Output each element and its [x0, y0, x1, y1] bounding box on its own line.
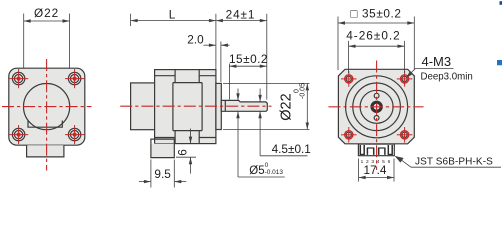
svg-text:6: 6: [176, 149, 190, 156]
connector pin bridges: [360, 148, 393, 154]
dimension Ø22 -0.05 rotated: [223, 83, 310, 130]
body section line right bottom: [198, 131, 200, 144]
svg-text:Ø22: Ø22: [34, 6, 59, 20]
svg-text:Ø5: Ø5: [249, 165, 264, 177]
screw bottom-left: [9, 125, 28, 144]
centerline vertical left view: [46, 59, 48, 171]
svg-text:15±0.2: 15±0.2: [229, 52, 268, 66]
svg-text:17.4: 17.4: [364, 163, 387, 177]
dimension 24±1: [216, 8, 267, 100]
svg-text:L: L: [169, 8, 176, 22]
shaft: [221, 100, 267, 111]
svg-text:9.5: 9.5: [154, 167, 171, 181]
connector side view: [151, 144, 174, 158]
body section line left bottom: [174, 131, 176, 144]
svg-text:24±1: 24±1: [226, 8, 256, 22]
centerline horizontal right view: [329, 106, 424, 108]
connector notch chord: [28, 121, 62, 128]
inner circle: [360, 90, 393, 123]
small hole top: [374, 93, 379, 98]
flange plate left view: [9, 68, 85, 145]
svg-text:0: 0: [265, 162, 269, 169]
leader 4-M3: [406, 54, 473, 82]
centerline vertical right view: [376, 61, 378, 171]
svg-text:4-26±0.2: 4-26±0.2: [346, 28, 401, 42]
body section line left top: [174, 70, 176, 83]
centerline horizontal left view: [2, 106, 92, 108]
dimension 4-26±0.2: [346, 28, 404, 73]
svg-text:-0.05: -0.05: [299, 83, 306, 99]
screw bottom-right: [65, 125, 84, 144]
svg-text:4.5±0.1: 4.5±0.1: [272, 142, 311, 156]
svg-text:Ø22: Ø22: [279, 93, 295, 120]
end cap band lines: [155, 76, 216, 138]
front boss side view: [216, 83, 221, 129]
screw top-right: [65, 69, 84, 88]
svg-text:□ 35±0.2: □ 35±0.2: [350, 7, 401, 21]
rear cap cylinder: [131, 83, 155, 130]
lamination stack edges: [173, 83, 202, 131]
motor body: [155, 70, 216, 144]
dimension 9.5: [139, 160, 186, 188]
pilot circle Ø22: [23, 84, 69, 130]
motor can circle: [346, 76, 408, 138]
M3 hole bottom-left: [341, 127, 357, 143]
blue artifact top right: [500, 1, 502, 5]
connector rear view: [358, 144, 394, 156]
screw top-left: [9, 69, 28, 88]
shaft hub dark ring: [372, 102, 381, 111]
boss circle Ø22 rear: [353, 83, 401, 131]
dimension 17.4: [359, 159, 394, 182]
dimension 2.0: [187, 33, 229, 82]
leader JST S6B-PH-K-S: [395, 156, 501, 168]
body section line right top: [198, 70, 200, 83]
blue artifact mid right: [497, 60, 502, 65]
rear flange plate: [338, 69, 414, 144]
dimension □35±0.2: [338, 7, 414, 70]
small hole bottom: [374, 116, 379, 121]
dimension 6 rotated: [176, 129, 197, 174]
shaft step line: [224, 100, 226, 111]
dimension L: [131, 8, 216, 70]
M3 hole top-left: [341, 71, 357, 87]
dimension Ø22 left view: [24, 6, 70, 68]
dimension 4.5±0.1: [258, 89, 310, 156]
dimension 15±0.2: [229, 52, 268, 99]
svg-text:4-M3: 4-M3: [422, 54, 452, 69]
M3 hole bottom-right: [397, 127, 413, 143]
svg-text:-0.013: -0.013: [265, 169, 284, 176]
svg-text:Deep3.0min: Deep3.0min: [421, 71, 473, 82]
centerline middle view: [120, 105, 271, 107]
connector pins dark bars: [360, 145, 392, 155]
svg-text:JST S6B-PH-K-S: JST S6B-PH-K-S: [415, 156, 493, 167]
svg-text:6: 6: [388, 159, 391, 165]
svg-text:2.0: 2.0: [187, 33, 204, 47]
connector hidden top: [151, 139, 174, 144]
bottom protrusion (connector front): [27, 145, 64, 157]
dimension Ø5 -0.013: [236, 89, 284, 178]
M3 hole top-right: [397, 71, 413, 87]
